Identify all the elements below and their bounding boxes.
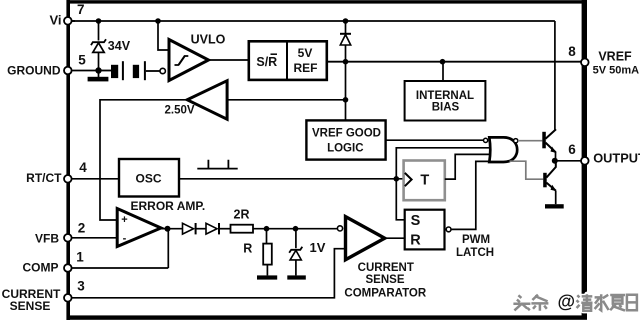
diode D1 body (183, 223, 194, 234)
svg-text:S/R: S/R (256, 55, 277, 69)
wire: T output to gate input 3 (445, 154, 490, 179)
svg-text:S: S (411, 213, 421, 229)
zener 1V stem bottom (295, 260, 297, 276)
error amp VFB wire (pin 2) (71, 237, 118, 239)
svg-text:SENSE: SENSE (10, 299, 51, 313)
block S/R + 5V REF outline (249, 41, 327, 80)
node: VREF/diode junction (343, 59, 349, 65)
current sense comparator input bubble (337, 226, 342, 231)
wire: OSC output clock line (179, 178, 404, 180)
wire: Q1 collector riser from top rail (554, 21, 556, 130)
block INTERNAL BIAS stem (442, 62, 444, 81)
node: error amp output (165, 226, 171, 232)
watermark 头条 @清水夏日 (hand-drawn glyph strokes) (513, 294, 637, 311)
wire D1-D2 (196, 228, 206, 230)
wire: VREF riser down to VREF GOOD LOGIC (345, 62, 347, 121)
svg-text:ERROR AMP.: ERROR AMP. (131, 199, 206, 213)
transistor Q1 emitter (546, 143, 556, 153)
wire: COMP riser to error amp output (167, 229, 169, 268)
wire: VREF output line to pin 8 (327, 61, 583, 63)
pin 5 GROUND wire (71, 70, 96, 72)
svg-text:VREF GOOD: VREF GOOD (312, 128, 381, 140)
pin 1 circle (64, 264, 72, 272)
resistor R (263, 244, 272, 265)
wire: comparator output to latch R (385, 237, 405, 239)
svg-text:OSC: OSC (135, 172, 161, 186)
clamp diode cathode bar (340, 33, 351, 35)
svg-text:+: + (121, 214, 127, 226)
wire: error amp output (161, 228, 183, 230)
svg-text:34V: 34V (108, 39, 131, 53)
capacitor C1 (thin plate) (122, 61, 124, 80)
transistor Q2 base bar (543, 173, 547, 188)
op-amp 2.50V reference buffer (left-pointing) (187, 81, 227, 120)
transistor Q2 collector (546, 163, 555, 178)
clamp diode wire bottom (345, 45, 347, 62)
IC outer boundary: left border (66, 0, 70, 320)
block VREF GOOD LOGIC (306, 120, 385, 159)
Q2 emitter arrowhead (551, 185, 557, 191)
svg-text:VREF: VREF (598, 49, 632, 63)
svg-text:RT/CT: RT/CT (26, 171, 62, 185)
overline over R of S/R (271, 53, 278, 55)
ground bar under zener (287, 275, 306, 279)
svg-text:5V 50mA: 5V 50mA (593, 64, 640, 76)
block OSC (119, 159, 179, 197)
svg-text:COMP: COMP (23, 261, 59, 275)
svg-text:6: 6 (568, 142, 576, 157)
svg-text:UVLO: UVLO (191, 33, 226, 47)
wire: Vi riser to UVLO input (158, 21, 168, 50)
pin 6 circle OUTPUT (581, 157, 589, 165)
Q1 emitter arrowhead (551, 147, 557, 154)
node: output junction (552, 158, 558, 164)
zener 1V cathode bar (289, 247, 302, 253)
svg-text:VFB: VFB (35, 232, 59, 246)
svg-text:SENSE: SENSE (366, 274, 405, 286)
pin 4 circle (64, 175, 72, 183)
pin 8 circle VREF (581, 59, 589, 67)
svg-text:R: R (243, 242, 252, 256)
svg-text:7: 7 (77, 2, 85, 17)
pin 1 COMP wire (71, 267, 168, 269)
wire: 2.50V output to error amp riser (100, 100, 187, 220)
wire: UVLO output to S/R box (209, 59, 249, 61)
svg-text:GROUND: GROUND (7, 64, 61, 78)
wire node to comparator bubble (296, 228, 338, 230)
wire: Vi top rail (71, 20, 555, 22)
zener 1V body (290, 250, 301, 260)
latch S/R box (PWM latch) (405, 210, 445, 250)
svg-text:OUTPUT: OUTPUT (593, 150, 640, 165)
diode D2 cathode bar (218, 223, 220, 234)
latch output bubble (446, 227, 451, 232)
wire: clock riser to gate input 2 (396, 148, 489, 179)
block INTERNAL BIAS (405, 81, 486, 121)
capacitor C1 (filled plate) (111, 65, 118, 78)
wire 2R to node (253, 228, 296, 230)
node: 2.50V line junction (343, 97, 349, 103)
pin 4 RT/CT wire (71, 178, 119, 180)
resistor R stem bottom (266, 265, 268, 276)
ground bar under pin5 node (88, 77, 109, 82)
svg-text:4: 4 (79, 160, 87, 175)
capacitor C2 (filled plate) (133, 65, 139, 78)
svg-text:8: 8 (568, 44, 576, 59)
svg-text:5V: 5V (298, 46, 313, 60)
pin 2 circle (64, 234, 72, 242)
wire: clock drop to latch S input (396, 179, 404, 220)
wire: Q2 emitter to ground (555, 191, 557, 205)
svg-text:@: @ (558, 292, 576, 312)
op-amp ERROR AMP triangle (117, 209, 161, 247)
wire: VREF GOOD LOGIC output to gate bubble (386, 139, 484, 141)
transistor Q2 emitter (546, 183, 555, 191)
node: clock junction (394, 176, 400, 182)
wire: latch output up to gate (451, 161, 490, 229)
svg-text:COMPARATOR: COMPARATOR (344, 288, 426, 300)
svg-text:1V: 1V (310, 240, 326, 255)
clamp diode body (340, 35, 350, 45)
svg-text:LOGIC: LOGIC (327, 143, 363, 155)
clamp diode (VREF to Vi) wire top (345, 21, 347, 34)
wire: gate output to Q1 base (gray) (518, 140, 543, 142)
op-amp UVLO comparator triangle (169, 40, 209, 81)
svg-text:CURRENT: CURRENT (358, 262, 414, 274)
wire: gate low output to Q2 base (gray) (510, 161, 544, 179)
pin 7 circle (64, 17, 72, 25)
node: R junction (264, 226, 270, 232)
op-amp CURRENT SENSE COMPARATOR triangle (346, 217, 385, 260)
logic gate (output NOR) body (489, 137, 517, 162)
T clock wedge (405, 173, 412, 186)
clock waveform symbol (197, 160, 237, 169)
zener 1V stem top (295, 229, 297, 249)
svg-text:PWM: PWM (462, 234, 490, 246)
node: VREF/internal bias junction (440, 59, 446, 65)
svg-text:Vi: Vi (49, 13, 61, 28)
capacitor C2 (thin plate) (144, 61, 146, 80)
wire: zener branch from top rail (98, 21, 100, 41)
wire D2 to 2R (219, 228, 231, 230)
svg-text:BIAS: BIAS (432, 102, 460, 114)
wire: Q1 emitter to output node (555, 152, 557, 159)
svg-text:INTERNAL: INTERNAL (416, 90, 474, 102)
resistor 2R (231, 225, 254, 233)
svg-text:2: 2 (78, 221, 86, 236)
node: junction top rail / clamp diode (343, 18, 349, 24)
node: pin5 junction (95, 67, 101, 73)
svg-text:-: - (123, 233, 127, 245)
pin 7 Vi: wire stub (71, 20, 75, 22)
gate output bubble (514, 139, 518, 143)
svg-text:REF: REF (294, 61, 318, 75)
zener diode 34V cathode bar (91, 39, 106, 45)
zener diode 34V body (93, 43, 104, 53)
pin 3 CURRENT SENSE wire (71, 249, 346, 298)
svg-text:LATCH: LATCH (456, 247, 494, 259)
pin 5 circle (64, 67, 72, 75)
node: zener junction (293, 226, 299, 232)
block divider S/R | 5V REF (286, 41, 288, 80)
svg-text:5: 5 (78, 53, 86, 68)
pin 3 circle (64, 294, 72, 302)
svg-text:2R: 2R (234, 208, 250, 222)
ground bar under R (257, 275, 277, 279)
wire pin5 node to C1 (99, 70, 112, 72)
wire: output node to pin 6 (555, 160, 582, 162)
svg-text:1: 1 (76, 250, 84, 265)
ground bar under Q2 (545, 204, 564, 208)
svg-text:3: 3 (77, 279, 85, 294)
flip-flop T box (shaded) (404, 161, 445, 201)
IC outer boundary: top border (67, 0, 588, 3)
IC outer boundary: right border (582, 0, 587, 318)
node: junction Vi/zener (96, 18, 102, 24)
UVLO inverting input bubble (160, 68, 165, 73)
svg-text:T: T (420, 173, 429, 189)
node: junction Vi/UVLO riser (155, 18, 161, 24)
resistor R stem top (266, 229, 268, 244)
diode D2 body (206, 223, 217, 234)
svg-text:2.50V: 2.50V (165, 105, 195, 117)
transistor Q1 base bar (542, 132, 546, 149)
wire C2 to UVLO bubble (146, 70, 160, 72)
wire: 2.50V reference line (227, 99, 346, 101)
wire: zener to ground node (98, 52, 100, 77)
transistor Q1 collector (546, 129, 557, 139)
svg-text:R: R (410, 233, 421, 249)
gate input bubble (top input) (484, 138, 488, 142)
diode D1 cathode bar (195, 223, 197, 234)
IC outer boundary: bottom border (67, 315, 588, 319)
UVLO hysteresis glyph (175, 56, 189, 65)
